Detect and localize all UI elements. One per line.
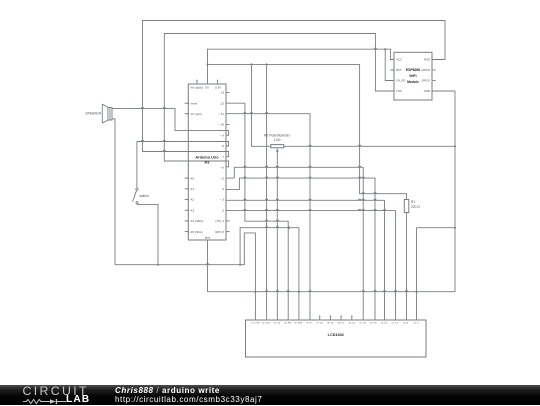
svg-text:Vin (jack): Vin (jack) bbox=[190, 86, 203, 90]
svg-text:GPIO0: GPIO0 bbox=[421, 68, 430, 72]
svg-text:R1: R1 bbox=[411, 200, 415, 204]
svg-text:A4 (SDA): A4 (SDA) bbox=[190, 219, 203, 223]
svg-text:A3: A3 bbox=[190, 208, 194, 212]
svg-text:RXD: RXD bbox=[424, 58, 430, 62]
svg-text:07: D0: 07: D0 bbox=[316, 323, 323, 325]
svg-text:A5 (SCL): A5 (SCL) bbox=[190, 230, 203, 234]
svg-text:4: 4 bbox=[222, 187, 224, 191]
svg-text:~ 6: ~ 6 bbox=[220, 166, 225, 170]
svg-text:~ 5: ~ 5 bbox=[220, 176, 225, 180]
svg-text:~ 3: ~ 3 bbox=[220, 198, 225, 202]
svg-text:ESP8266: ESP8266 bbox=[406, 68, 420, 72]
svg-text:CH_PD: CH_PD bbox=[396, 79, 405, 83]
svg-text:12: D5: 12: D5 bbox=[370, 323, 377, 325]
svg-text:220 Ω: 220 Ω bbox=[411, 205, 420, 209]
svg-text:VCC: VCC bbox=[396, 58, 402, 62]
svg-text:13: D6: 13: D6 bbox=[381, 323, 388, 325]
svg-text:(TX) 1: (TX) 1 bbox=[215, 219, 224, 223]
svg-text:5V: 5V bbox=[205, 86, 210, 90]
svg-text:WiFi: WiFi bbox=[409, 74, 416, 78]
svg-text:04: RS: 04: RS bbox=[284, 323, 291, 325]
svg-text:~ 9: ~ 9 bbox=[220, 134, 225, 138]
svg-text:switch: switch bbox=[140, 194, 149, 198]
svg-text:09: D2: 09: D2 bbox=[338, 323, 345, 325]
svg-text:A2: A2 bbox=[190, 198, 194, 202]
svg-text:2: 2 bbox=[222, 208, 224, 212]
svg-text:05: R/W: 05: R/W bbox=[294, 323, 303, 325]
svg-text:TXD: TXD bbox=[396, 89, 402, 93]
svg-text:14: D7: 14: D7 bbox=[391, 323, 398, 325]
svg-text:3.3V: 3.3V bbox=[215, 86, 222, 90]
svg-text:~ 10: ~ 10 bbox=[218, 123, 224, 127]
svg-text:12: 12 bbox=[221, 101, 225, 105]
svg-text:gnd: gnd bbox=[205, 236, 210, 240]
svg-text:11: D4: 11: D4 bbox=[359, 323, 366, 325]
svg-text:~ 11: ~ 11 bbox=[218, 112, 224, 116]
svg-text:08: D1: 08: D1 bbox=[327, 323, 334, 325]
svg-text:13: 13 bbox=[221, 91, 225, 95]
svg-text:SPEAKER: SPEAKER bbox=[85, 112, 101, 116]
svg-text:Vin (pin): Vin (pin) bbox=[190, 112, 201, 116]
svg-text:03: V0: 03: V0 bbox=[274, 323, 281, 325]
svg-text:R3: R3 bbox=[205, 161, 210, 165]
svg-text:R2 Potentiometer: R2 Potentiometer bbox=[264, 133, 291, 137]
svg-text:10: D3: 10: D3 bbox=[349, 323, 356, 325]
svg-text:reset: reset bbox=[190, 101, 197, 105]
svg-text:02: VDD: 02: VDD bbox=[262, 323, 271, 325]
svg-text:GND: GND bbox=[424, 89, 430, 93]
svg-text:1 kΩ: 1 kΩ bbox=[274, 138, 281, 142]
svg-text:GPIO2: GPIO2 bbox=[421, 79, 430, 83]
svg-text:A1: A1 bbox=[190, 187, 194, 191]
svg-text:Module: Module bbox=[407, 80, 419, 84]
svg-text:7: 7 bbox=[222, 155, 224, 159]
svg-text:8: 8 bbox=[222, 144, 224, 148]
svg-text:A0: A0 bbox=[190, 176, 194, 180]
svg-text:15: A: 15: A bbox=[403, 322, 409, 325]
svg-text:RST: RST bbox=[396, 68, 402, 72]
svg-text:LCD1602: LCD1602 bbox=[328, 333, 344, 337]
svg-text:Arduino Uno: Arduino Uno bbox=[195, 155, 219, 159]
svg-text:06: E: 06: E bbox=[306, 323, 312, 325]
svg-text:16: K: 16: K bbox=[413, 323, 419, 325]
svg-text:01: VSS: 01: VSS bbox=[251, 323, 260, 325]
svg-text:(RX) 0: (RX) 0 bbox=[215, 230, 224, 234]
